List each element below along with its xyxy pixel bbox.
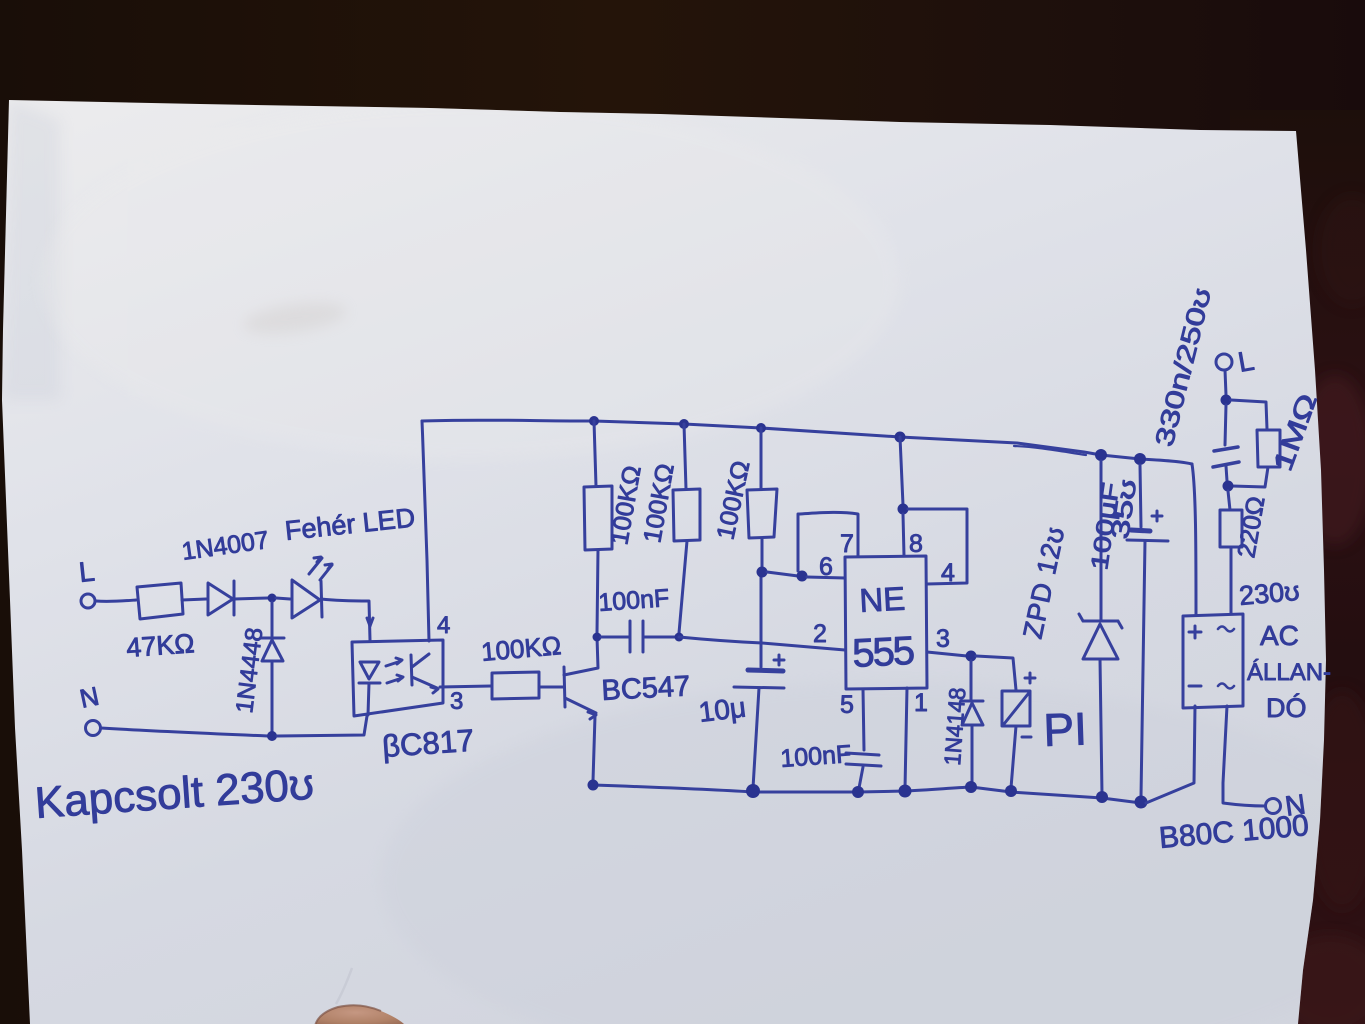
node top rail 6 bbox=[1134, 453, 1146, 465]
wire top rail bbox=[422, 420, 1192, 464]
wire bridge ac2 down to N bbox=[1223, 706, 1265, 806]
svg-text:BC547: BC547 bbox=[601, 670, 691, 707]
node rail 6 bbox=[1005, 785, 1017, 797]
wire bridge minus to rail bbox=[1146, 706, 1195, 803]
wire node H to relay bbox=[976, 656, 1016, 690]
wire bottom rail bbox=[593, 785, 1141, 803]
svg-text:ÁLLAN-: ÁLLAN- bbox=[1247, 659, 1331, 686]
svg-text:PI: PI bbox=[1043, 703, 1088, 756]
wire node E to pin6 loop node bbox=[767, 572, 798, 576]
node rail 4 bbox=[899, 785, 912, 798]
diode D2 1N4148 bbox=[961, 661, 983, 783]
resistor R1 100K bbox=[584, 421, 612, 633]
node B bbox=[267, 731, 277, 741]
svg-text:βC817: βC817 bbox=[381, 723, 475, 764]
svg-text:100nF: 100nF bbox=[597, 584, 670, 617]
wire L to node I bbox=[1225, 370, 1226, 395]
svg-text:N: N bbox=[1283, 788, 1307, 822]
relay P1 bbox=[1002, 673, 1035, 788]
svg-text:47KΩ: 47KΩ bbox=[125, 628, 195, 663]
svg-text:AC: AC bbox=[1260, 620, 1299, 651]
resistor 47K bbox=[137, 583, 183, 619]
capacitor C4 100uF 35V bbox=[1127, 465, 1168, 797]
wire pin 8 from rail bbox=[900, 437, 903, 505]
node rail 7 bbox=[1096, 791, 1108, 803]
node rail 8 bbox=[1135, 796, 1148, 809]
node A bbox=[268, 594, 277, 603]
svg-text:230ʊ: 230ʊ bbox=[1238, 576, 1301, 611]
wire pin7 loop bbox=[798, 512, 858, 571]
optocoupler U1 BC817 bbox=[352, 618, 443, 716]
node top rail 5 bbox=[1095, 449, 1107, 461]
svg-text:10μ: 10μ bbox=[697, 691, 748, 728]
wire to bridge plus bbox=[1192, 464, 1196, 615]
svg-text:NE: NE bbox=[858, 580, 906, 619]
node E (pin6 junction) bbox=[757, 567, 768, 578]
svg-text:4: 4 bbox=[437, 612, 450, 639]
node rail 2 bbox=[746, 784, 760, 798]
op-amp U2 NE555 (timer IC box) bbox=[845, 556, 927, 689]
node I bbox=[1221, 395, 1232, 406]
svg-text:DÓ: DÓ bbox=[1266, 692, 1307, 723]
node top rail 1 bbox=[589, 416, 599, 426]
wire top rail scribble bbox=[1014, 446, 1086, 455]
wire pin 5 down bbox=[863, 689, 864, 750]
node F (pin6/7 tie) bbox=[797, 571, 808, 582]
wire LED to opto anode bbox=[321, 599, 370, 640]
node G (pin8) bbox=[898, 504, 909, 515]
wire node D to 555 pin 2 bbox=[679, 637, 845, 650]
bridge rectifier B80C1000 bbox=[1183, 614, 1243, 708]
wire D1 to node A bbox=[234, 598, 268, 599]
LED white (Fehér LED) bbox=[292, 557, 332, 618]
svg-text:7: 7 bbox=[840, 530, 854, 558]
svg-text:L: L bbox=[77, 556, 96, 588]
wire L to 47K bbox=[96, 600, 136, 601]
wire pin8 to 555 bbox=[903, 514, 904, 556]
terminal N (output right) bbox=[1266, 799, 1281, 814]
svg-text:8: 8 bbox=[909, 530, 923, 558]
resistor R2 100K bbox=[673, 424, 700, 633]
wire node A to LED bbox=[276, 598, 290, 599]
resistor R4 100K (base) bbox=[492, 672, 539, 699]
diode D1 1N4007 bbox=[208, 581, 234, 615]
node D (cap to pin2) bbox=[675, 633, 684, 642]
svg-text:1N4148: 1N4148 bbox=[939, 687, 970, 767]
svg-text:100nF: 100nF bbox=[779, 740, 852, 773]
wire pin6 bbox=[807, 577, 845, 578]
capacitor C3 100nF (pin5) bbox=[846, 753, 881, 788]
wire node B to opto cathode bbox=[277, 716, 367, 736]
node rail 1 bbox=[588, 780, 599, 791]
svg-text:3: 3 bbox=[936, 625, 950, 653]
node J bbox=[1223, 481, 1234, 492]
node top rail 3 bbox=[756, 423, 766, 433]
svg-text:3: 3 bbox=[450, 688, 463, 715]
wire pin 1 down bbox=[905, 688, 907, 789]
diode 1N4448 (input clamp) bbox=[261, 602, 284, 732]
wire left rail (top rail down to opto pin 4) bbox=[422, 421, 429, 641]
resistor R6 220 bbox=[1220, 491, 1242, 614]
resistor R3 100K bbox=[747, 428, 777, 569]
capacitor C2 10uF bbox=[734, 571, 784, 788]
wire pin8/pin4 loop bbox=[908, 509, 967, 584]
paper crease above finger bbox=[336, 968, 352, 1004]
wire 47K to D1 bbox=[182, 599, 206, 600]
wire R4 to BC547 base bbox=[539, 686, 563, 689]
wire pin 3 to node H bbox=[927, 652, 967, 656]
svg-text:2: 2 bbox=[813, 620, 827, 648]
capacitor C1 100nF (coupling) bbox=[601, 621, 675, 652]
terminal N (mains input) bbox=[86, 721, 101, 736]
wire opto pin3 to base resistor bbox=[440, 686, 491, 687]
node H (pin3 output) bbox=[966, 651, 977, 662]
diode D3 zener ZPD12V bbox=[1079, 461, 1122, 794]
node top rail 4 bbox=[895, 432, 906, 443]
fingertip holding the paper bbox=[346, 1013, 378, 1023]
terminal L (output right) bbox=[1216, 354, 1232, 370]
node rail 3 bbox=[852, 786, 864, 798]
svg-text:5: 5 bbox=[840, 691, 854, 719]
node C (BC547 collector) bbox=[593, 633, 602, 642]
transistor Q1 BC547 bbox=[564, 637, 598, 781]
svg-text:555: 555 bbox=[851, 629, 915, 676]
capacitor C5 330n/250V bbox=[1213, 405, 1239, 481]
resistor R5 1M (branch) bbox=[1231, 400, 1280, 487]
terminal L (mains input) bbox=[81, 594, 95, 608]
wire N to node B bbox=[101, 728, 268, 736]
svg-text:1: 1 bbox=[914, 689, 928, 717]
node rail 5 bbox=[965, 781, 977, 793]
node top rail 2 bbox=[679, 419, 689, 429]
svg-text:6: 6 bbox=[819, 553, 833, 581]
